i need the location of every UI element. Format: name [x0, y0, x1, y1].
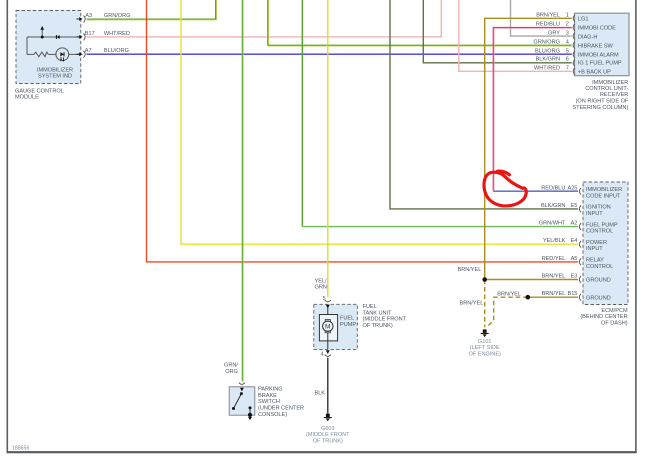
svg-text:SWITCH: SWITCH [258, 399, 280, 405]
svg-text:YEL/: YEL/ [315, 278, 328, 284]
svg-text:RELAY: RELAY [586, 258, 604, 264]
svg-text:(LEFT SIDE: (LEFT SIDE [470, 345, 500, 351]
svg-text:FUEL PUMP: FUEL PUMP [586, 222, 618, 228]
svg-text:PUMP: PUMP [340, 322, 356, 328]
svg-text:E4: E4 [571, 238, 578, 244]
svg-text:A2: A2 [571, 221, 578, 227]
svg-text:(MIDDLE FRONT: (MIDDLE FRONT [363, 317, 407, 323]
svg-text:DIAG-H: DIAG-H [578, 34, 597, 40]
svg-text:4: 4 [566, 40, 569, 46]
svg-text:TANK UNIT: TANK UNIT [363, 310, 393, 316]
svg-text:6: 6 [566, 57, 569, 63]
svg-text:GRN/ORG: GRN/ORG [533, 40, 560, 46]
svg-text:(UNDER CENTER: (UNDER CENTER [258, 406, 304, 412]
svg-text:BLK/GRN: BLK/GRN [541, 203, 565, 209]
svg-text:A3: A3 [85, 13, 92, 19]
svg-text:A7: A7 [85, 48, 92, 54]
svg-text:FUEL: FUEL [340, 316, 354, 322]
svg-text:A25: A25 [567, 185, 577, 191]
svg-text:HIBRAKE SW: HIBRAKE SW [578, 43, 614, 49]
svg-text:(BEHIND CENTER: (BEHIND CENTER [580, 314, 627, 320]
svg-text:+B BACK UP: +B BACK UP [578, 70, 611, 76]
svg-text:5: 5 [323, 296, 326, 302]
svg-text:BRN/YEL: BRN/YEL [459, 301, 483, 307]
svg-text:CONTROL UNIT-: CONTROL UNIT- [585, 86, 628, 92]
svg-text:CONTROL: CONTROL [586, 229, 613, 235]
svg-text:GRN/: GRN/ [224, 363, 238, 369]
svg-text:BRAKE: BRAKE [258, 393, 277, 399]
svg-text:RED/BLU: RED/BLU [541, 185, 565, 191]
svg-text:BRN/YEL: BRN/YEL [542, 274, 566, 280]
svg-text:RED/YEL: RED/YEL [542, 256, 566, 262]
svg-text:E3: E3 [571, 274, 578, 280]
svg-text:BLU/ORG: BLU/ORG [104, 48, 129, 54]
svg-text:BRN/YEL: BRN/YEL [497, 291, 521, 297]
svg-text:4: 4 [321, 352, 324, 358]
svg-text:GRY: GRY [548, 30, 560, 36]
svg-text:IMMOBI ALARM: IMMOBI ALARM [578, 52, 619, 58]
svg-text:INPUT: INPUT [586, 211, 603, 217]
svg-text:OF TRUNK): OF TRUNK) [363, 323, 393, 329]
svg-text:B17: B17 [85, 31, 95, 37]
svg-text:BLK: BLK [315, 391, 326, 397]
svg-text:CONTROL: CONTROL [586, 264, 613, 270]
svg-text:FUEL: FUEL [363, 304, 377, 310]
svg-text:OF ENGINE): OF ENGINE) [468, 351, 501, 357]
svg-text:IMMOBI CODE: IMMOBI CODE [578, 26, 616, 32]
svg-text:BRN/YEL: BRN/YEL [536, 13, 560, 19]
svg-text:BLU/ORG: BLU/ORG [535, 49, 560, 55]
svg-text:GRN/ORG: GRN/ORG [104, 13, 131, 19]
svg-text:A5: A5 [571, 256, 578, 262]
svg-text:YEL/BLK: YEL/BLK [543, 238, 566, 244]
svg-text:5: 5 [566, 49, 569, 55]
svg-text:LG1: LG1 [578, 17, 589, 23]
svg-text:POWER: POWER [586, 240, 607, 246]
svg-text:INPUT: INPUT [586, 246, 603, 252]
svg-text:WHT/RED: WHT/RED [534, 66, 560, 72]
svg-text:PARKING: PARKING [258, 387, 283, 393]
svg-text:G101: G101 [478, 339, 492, 345]
svg-text:CODE INPUT: CODE INPUT [586, 193, 621, 199]
svg-text:BLK/GRN: BLK/GRN [536, 57, 560, 63]
svg-text:GRN: GRN [315, 285, 327, 291]
svg-text:(ON RIGHT SIDE OF: (ON RIGHT SIDE OF [576, 99, 629, 105]
svg-text:GROUND: GROUND [586, 278, 611, 284]
svg-text:SYSTEM IND: SYSTEM IND [38, 74, 72, 80]
svg-text:IMMOBILIZER: IMMOBILIZER [586, 187, 622, 193]
svg-text:3: 3 [566, 30, 569, 36]
svg-text:OF DASH): OF DASH) [601, 321, 628, 327]
svg-text:E5: E5 [571, 203, 578, 209]
svg-text:M: M [325, 324, 331, 331]
svg-text:BRN/YEL: BRN/YEL [542, 291, 566, 297]
svg-text:188656: 188656 [12, 446, 29, 452]
svg-text:(MIDDLE FRONT: (MIDDLE FRONT [306, 432, 350, 438]
svg-text:OF TRUNK): OF TRUNK) [313, 439, 343, 445]
svg-text:CONSOLE): CONSOLE) [258, 412, 287, 418]
svg-text:BRN/YEL: BRN/YEL [457, 267, 481, 273]
svg-text:G603: G603 [321, 426, 335, 432]
svg-text:STEERING COLUMN): STEERING COLUMN) [572, 105, 628, 111]
svg-text:IMMOBILIZER: IMMOBILIZER [592, 80, 628, 86]
svg-text:IGNITION: IGNITION [586, 205, 611, 211]
svg-text:RED/BLU: RED/BLU [536, 22, 560, 28]
svg-text:ORG: ORG [225, 369, 238, 375]
svg-text:WHT/RED: WHT/RED [104, 31, 130, 37]
svg-text:ECM/PCM: ECM/PCM [601, 308, 628, 314]
svg-text:GROUND: GROUND [586, 295, 611, 301]
svg-text:IMMOBILIZER: IMMOBILIZER [37, 67, 73, 73]
svg-text:1: 1 [566, 13, 569, 19]
svg-text:RECEIVER: RECEIVER [600, 92, 628, 98]
svg-text:MODULE: MODULE [15, 94, 39, 100]
svg-text:IG 1 FUEL PUMP: IG 1 FUEL PUMP [578, 61, 622, 67]
svg-text:B15: B15 [567, 291, 577, 297]
svg-text:7: 7 [566, 66, 569, 72]
svg-text:2: 2 [566, 22, 569, 28]
svg-text:GRN/WHT: GRN/WHT [539, 221, 566, 227]
